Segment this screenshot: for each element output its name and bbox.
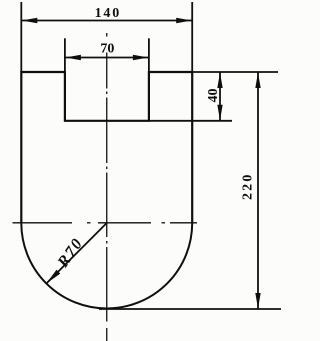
horizontal centerline dot 2 bbox=[162, 222, 166, 224]
vertical centerline: dash-dot run bbox=[106, 53, 108, 341]
part outline: left edge bbox=[20, 71, 22, 223]
dimension line 220 bbox=[257, 72, 259, 309]
dimension line 140 bbox=[21, 20, 192, 22]
svg-text:R70: R70 bbox=[54, 235, 87, 272]
horizontal centerline dot 1 bbox=[87, 222, 91, 224]
horizontal centerline dash 1 bbox=[13, 222, 73, 224]
svg-text:40: 40 bbox=[206, 89, 221, 103]
arrow 220 top bbox=[255, 73, 260, 89]
svg-text:70: 70 bbox=[100, 42, 114, 57]
extension line right for 70 bbox=[148, 38, 150, 72]
arrow 220 bottom bbox=[255, 293, 260, 309]
dimension line 40 bbox=[219, 72, 221, 121]
extension line left for 70 bbox=[64, 38, 66, 72]
extension line from notch bottom for 40 bbox=[149, 120, 232, 122]
part outline: top edge with rectangular notch bbox=[21, 72, 192, 121]
dimension line 70 bbox=[65, 57, 149, 59]
arrow 140 left bbox=[22, 18, 38, 23]
arrow 70 left bbox=[65, 55, 81, 60]
svg-text:220: 220 bbox=[241, 172, 256, 200]
arrow 40 top bbox=[217, 73, 222, 89]
horizontal centerline dash 3 bbox=[170, 222, 197, 224]
horizontal centerline dash 2 bbox=[98, 222, 151, 224]
arrow R70 at arc bbox=[46, 270, 60, 284]
vertical centerline: top dot bbox=[106, 33, 108, 37]
extension line left for 140 bbox=[20, 2, 22, 72]
radius leader line R70 from arc center bbox=[47, 223, 107, 283]
part outline: bottom semicircular arc R70 bbox=[21, 223, 192, 308]
extension line bottom for 220 bbox=[99, 308, 281, 310]
arrow 70 right bbox=[133, 55, 149, 60]
part outline: right edge bbox=[191, 71, 193, 223]
arrow 140 right bbox=[176, 18, 192, 23]
extension line top right shared by 40 and 220 bbox=[192, 71, 278, 73]
svg-text:140: 140 bbox=[95, 6, 121, 21]
extension line right for 140 bbox=[191, 2, 193, 72]
arrow 40 bottom bbox=[217, 105, 222, 121]
